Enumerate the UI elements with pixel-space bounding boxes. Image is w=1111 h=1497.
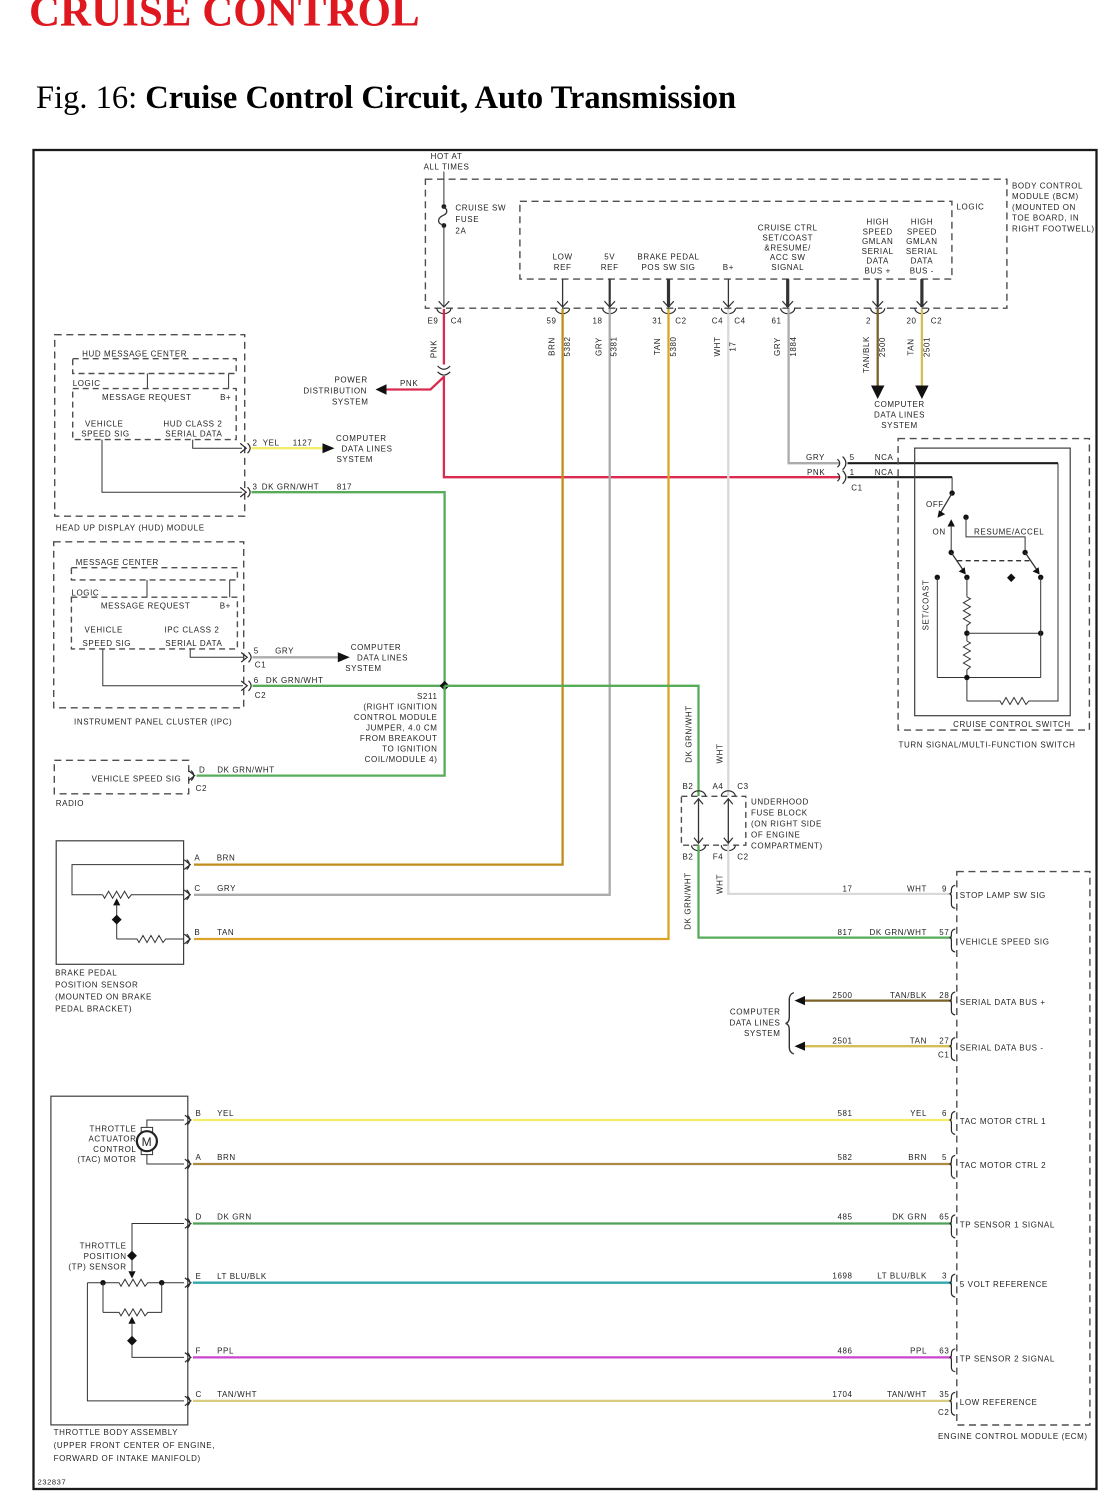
labels B2 F4 C2 [683,853,749,862]
label HOT AT ALL TIMES [424,152,470,172]
label UNDERHOOD FUSE BLOCK note [751,798,823,851]
module RADIO dashed box [54,760,188,794]
svg-text:DISTRIBUTION: DISTRIBUTION [303,387,367,396]
svg-text:35: 35 [939,1390,949,1399]
svg-text:LOGIC: LOGIC [957,203,985,212]
svg-text:9: 9 [942,884,947,893]
svg-text:PPL: PPL [217,1347,234,1356]
wire BRN 582 [193,1163,952,1165]
svg-text:DATA LINES: DATA LINES [342,445,393,454]
svg-text:CRUISE CONTROL: CRUISE CONTROL [29,0,420,36]
wire TAN 5380 vertical [194,309,669,939]
svg-text:TAN/WHT: TAN/WHT [217,1390,257,1399]
label B YEL [196,1109,235,1118]
svg-text:5382: 5382 [563,336,572,356]
svg-text:DATA: DATA [911,257,934,266]
svg-text:FUSE BLOCK: FUSE BLOCK [751,809,808,818]
svg-text:LOW REFERENCE: LOW REFERENCE [960,1398,1038,1407]
HUD message center dashed frame [73,359,237,374]
svg-text:(UPPER FRONT CENTER OF ENGINE,: (UPPER FRONT CENTER OF ENGINE, [54,1441,215,1450]
wire tac motor to pin B [147,1120,184,1127]
svg-text:B+: B+ [220,393,231,402]
svg-text:GRY: GRY [594,337,603,356]
svg-text:3: 3 [253,483,258,492]
svg-text:27: 27 [939,1037,949,1046]
svg-text:232837: 232837 [38,1478,67,1487]
wire middle column upper [966,577,968,597]
svg-text:E9: E9 [428,317,439,326]
svg-text:THROTTLE BODY ASSEMBLY: THROTTLE BODY ASSEMBLY [54,1428,179,1437]
svg-text:C2: C2 [737,853,748,862]
svg-text:HUD MESSAGE CENTER: HUD MESSAGE CENTER [82,349,187,358]
svg-text:C2: C2 [196,784,207,793]
connector ECM pin 28 [950,992,955,1015]
svg-text:BRN: BRN [217,1153,236,1162]
label CRUISE CTRL SET/COAST &RESUME/ACC SW SIGNAL [758,224,818,273]
svg-text:S211: S211 [417,692,438,701]
wire 5V REF pin 18 [609,279,611,307]
node ON pivot [949,550,954,555]
svg-text:JUMPER, 4.0 CM: JUMPER, 4.0 CM [366,724,438,733]
svg-text:COMPUTER: COMPUTER [351,643,402,652]
svg-text:TAN: TAN [910,1037,927,1046]
svg-text:5V: 5V [604,252,615,261]
label BRAKE PEDAL POSITION SENSOR caption [55,969,152,1014]
switch contact ON arrow [948,519,955,526]
label VEHICLE SPEED SIG ipc [83,626,132,648]
svg-text:TO IGNITION: TO IGNITION [382,745,437,754]
resistor tp R1 [87,1279,184,1286]
svg-text:DK GRN/WHT: DK GRN/WHT [869,928,927,937]
svg-text:582: 582 [837,1153,852,1162]
wire serial data bus - pin 20 [920,279,923,307]
svg-text:OFF: OFF [926,500,944,509]
svg-text:BUS +: BUS + [865,267,891,276]
wire TAN/BLK 2500 serial data bus + [805,999,952,1001]
wire pnk feed into switch [951,477,953,491]
svg-text:LT BLU/BLK: LT BLU/BLK [217,1272,267,1281]
svg-text:YEL: YEL [217,1109,234,1118]
svg-text:LOW: LOW [553,252,573,261]
svg-text:DATA LINES: DATA LINES [357,654,408,663]
wire ipc serial data to pin 5 [190,649,243,657]
connector NCA pin 5 [837,457,845,470]
connector bps pin B [184,934,190,944]
svg-text:MESSAGE CENTER: MESSAGE CENTER [76,558,159,567]
label HUD CLASS 2 SERIAL DATA [163,419,222,438]
resistor bps R2 to pin B [117,936,184,943]
connector tb pin A [185,1159,191,1169]
svg-text:POWER: POWER [335,376,368,385]
svg-text:DK GRN/WHT: DK GRN/WHT [262,483,320,492]
labels row tp sensor 1 [837,1212,949,1221]
wire radio vehicle speed sig [197,686,445,776]
svg-text:C: C [196,1390,202,1399]
svg-text:2A: 2A [455,227,466,236]
wire right column [1040,577,1042,677]
wire tac motor to pin A [147,1155,184,1164]
svg-text:&RESUME/: &RESUME/ [764,243,811,252]
svg-text:(MOUNTED ON: (MOUNTED ON [1012,203,1076,212]
svg-text:GMLAN: GMLAN [862,237,893,246]
svg-text:SPEED: SPEED [863,227,893,236]
svg-text:HOT AT: HOT AT [431,152,463,161]
svg-text:LOGIC: LOGIC [73,379,101,388]
svg-text:(TP) SENSOR: (TP) SENSOR [68,1263,126,1272]
svg-text:2: 2 [866,317,871,326]
svg-text:(RIGHT IGNITION: (RIGHT IGNITION [363,703,437,712]
wire bps pin A internal [72,865,184,895]
svg-text:31: 31 [652,317,662,326]
svg-text:ALL TIMES: ALL TIMES [424,163,470,172]
connector ipc pin 5 [241,652,251,662]
connector tb pin B [185,1115,191,1125]
svg-text:C1: C1 [255,660,266,669]
motor TAC circle M [137,1131,157,1151]
labels 5 NCA / 1 NCA C1 [850,453,894,493]
wire TAN/WHT 1704 [193,1400,952,1402]
svg-text:IPC CLASS 2: IPC CLASS 2 [164,626,219,635]
svg-text:2: 2 [253,439,258,448]
svg-text:LT BLU/BLK: LT BLU/BLK [877,1272,927,1281]
svg-text:2501: 2501 [922,337,931,357]
wire set/coast column [936,577,938,677]
svg-text:WHT: WHT [716,743,725,763]
label COMPUTER DATA LINES SYSTEM (ipc) [345,643,408,673]
node OFF contact [949,490,954,495]
svg-text:HEAD UP DISPLAY (HUD) MODULE: HEAD UP DISPLAY (HUD) MODULE [56,524,205,533]
wire DK GRN/WHT from ipc to S211 [253,685,445,687]
wiper2 tp [128,1317,135,1324]
labels row tac motor ctrl 1 [837,1109,947,1118]
wire YEL 1127 [252,447,323,449]
wire DK GRN/WHT below fuse block to ECM 57 [699,845,952,937]
svg-text:DK GRN: DK GRN [892,1212,927,1221]
wire GRY 5381 vertical [194,309,610,895]
svg-text:6: 6 [254,676,259,685]
wire PNK from E9 [443,309,445,365]
svg-text:UNDERHOOD: UNDERHOOD [751,798,809,807]
svg-text:C2: C2 [675,317,686,326]
module TURN SIGNAL dashed box [898,439,1089,730]
svg-text:DATA: DATA [866,257,889,266]
label 2 YEL 1127 [253,439,313,448]
svg-text:SPEED SIG: SPEED SIG [83,639,132,648]
label 3 DK GRN/WHT 817 [253,483,353,492]
labels row tac motor ctrl 2 [837,1153,947,1162]
wire PNK branch to power distribution [385,377,444,390]
svg-text:C2: C2 [938,1408,949,1417]
svg-text:COMPUTER: COMPUTER [730,1008,781,1017]
connector ECM pin 9 [950,885,955,908]
wire resume contact routing [966,517,1025,550]
wire NCA pin5 into switch [848,462,1059,464]
svg-text:GRY: GRY [217,884,236,893]
svg-text:COMPARTMENT): COMPARTMENT) [751,842,823,851]
svg-text:VEHICLE SPEED SIG: VEHICLE SPEED SIG [92,774,182,783]
wire tp pin D internal [132,1224,184,1272]
svg-text:DK GRN/WHT: DK GRN/WHT [266,676,324,685]
svg-text:61: 61 [771,317,781,326]
wire DK GRN 485 [193,1222,952,1224]
label D DK GRN [196,1213,252,1222]
fuse CRUISE SW FUSE 2A [442,204,447,209]
svg-text:FROM BREAKOUT: FROM BREAKOUT [360,734,438,743]
svg-text:VEHICLE SPEED SIG: VEHICLE SPEED SIG [960,937,1050,946]
svg-text:C4: C4 [451,317,462,326]
svg-text:C4: C4 [734,317,745,326]
node middle contact diamond [1007,573,1015,581]
connector ECM pin 63 [950,1349,955,1372]
svg-text:BRN: BRN [547,337,556,356]
BCM LOGIC dashed box [520,201,952,279]
svg-text:TAN: TAN [217,928,234,937]
box CRUISE CONTROL SWITCH [915,448,1070,716]
svg-text:THROTTLE: THROTTLE [89,1124,136,1133]
svg-text:BRAKE PEDAL: BRAKE PEDAL [55,969,117,978]
svg-text:RADIO: RADIO [56,799,84,808]
svg-text:TAC MOTOR CTRL 1: TAC MOTOR CTRL 1 [960,1117,1046,1126]
labels B2 A4 C3 [683,782,749,791]
node tp wiper1 splice [127,1251,137,1261]
label E LT BLU/BLK [196,1272,267,1281]
connector tb pin F [185,1352,191,1362]
node S211 splice [440,681,450,691]
wire bottom junction row [937,670,1040,701]
wire ON contact [950,526,952,551]
svg-text:3: 3 [942,1272,947,1281]
svg-text:CRUISE SW: CRUISE SW [455,204,506,213]
svg-text:5381: 5381 [610,336,619,356]
svg-text:NCA: NCA [875,453,894,462]
svg-text:B: B [194,928,200,937]
svg-text:RESUME/ACCEL: RESUME/ACCEL [974,527,1044,536]
svg-text:CONTROL MODULE: CONTROL MODULE [354,713,438,722]
connector ECM pin 35 [950,1392,955,1415]
label C GRY [194,884,236,893]
svg-text:MESSAGE REQUEST: MESSAGE REQUEST [102,393,191,402]
svg-text:TAN/BLK: TAN/BLK [890,991,927,1000]
fuse block internal wire left [698,799,700,844]
svg-text:VEHICLE: VEHICLE [85,626,123,635]
svg-text:ON: ON [933,527,946,536]
svg-text:SERIAL DATA BUS +: SERIAL DATA BUS + [960,998,1046,1007]
connector ipc pin 6 [241,681,251,691]
node right column top [1038,575,1043,580]
connector bump B2 top [692,791,706,797]
svg-text:C3: C3 [737,782,748,791]
svg-text:PNK: PNK [807,468,825,477]
label HIGH SPEED GMLAN SERIAL DATA BUS + [862,218,894,276]
wire GRY to computer data lines [253,656,338,658]
connector ECM pin 6 [950,1111,955,1134]
label 5 C1 GRY [254,647,294,670]
resistor bps R1 [103,891,184,898]
svg-text:A: A [194,854,200,863]
wire B+ pin C4 [727,279,729,307]
labels row vehicle speed [837,928,949,937]
label B TAN [194,928,234,937]
svg-text:LOGIC: LOGIC [71,589,99,598]
wire to junction [966,625,968,641]
svg-text:SPEED: SPEED [907,227,937,236]
svg-text:B+: B+ [723,263,734,272]
switch arm RESUME [1025,553,1036,570]
node right column mid [1038,631,1043,636]
wiper bps [113,898,120,905]
svg-text:B+: B+ [220,601,231,610]
svg-text:MODULE (BCM): MODULE (BCM) [1012,192,1079,201]
labels row serial data bus - [832,1037,949,1060]
svg-text:M: M [142,1135,153,1149]
resistor R3 horizontal with feedback line [967,463,1058,704]
wiper1 arrowhead [128,1271,135,1278]
connector hud pin 3 [240,487,250,497]
svg-text:BRN: BRN [908,1153,927,1162]
label VEHICLE SPEED SIG hud [81,419,130,438]
svg-text:HIGH: HIGH [911,218,933,227]
svg-text:C: C [194,884,200,893]
labels row low ref [832,1390,949,1417]
connector tb pin C [185,1396,191,1406]
svg-text:SIGNAL: SIGNAL [771,263,804,272]
svg-text:SYSTEM: SYSTEM [345,664,382,673]
connector bump F4 bottom [721,845,735,851]
svg-text:20: 20 [906,317,916,326]
wire PPL 486 [193,1356,952,1358]
svg-text:BUS -: BUS - [910,267,934,276]
node link lines ipc [147,580,230,597]
label THROTTLE BODY ASSEMBLY caption [54,1428,215,1463]
wire TAN 2501 serial data bus - [805,1045,952,1047]
wire WHT 17 vertical to fuse block [727,309,729,796]
pin labels under BCM [428,317,943,326]
svg-text:TAN: TAN [907,338,916,355]
wire DK GRN/WHT S211 to fuse block [445,686,699,796]
wire hud serial data to pin 2 [193,440,242,449]
svg-text:57: 57 [939,928,949,937]
svg-text:18: 18 [592,317,602,326]
label BRAKE PEDAL POS SW SIG [637,252,699,272]
svg-text:581: 581 [837,1109,852,1118]
svg-text:THROTTLE: THROTTLE [80,1242,127,1251]
svg-text:VEHICLE: VEHICLE [85,419,123,428]
svg-text:STOP LAMP SW SIG: STOP LAMP SW SIG [960,891,1046,900]
labels row tp sensor 2 [837,1346,949,1355]
svg-text:17: 17 [729,341,738,351]
svg-text:ACC SW: ACC SW [770,253,806,262]
connector ECM pin 57 [950,929,955,952]
connector ECM pin 27 [950,1038,955,1061]
svg-text:DK GRN/WHT: DK GRN/WHT [217,766,275,775]
svg-text:GMLAN: GMLAN [906,237,937,246]
wire TAN/BLK 2500 stub [877,309,879,388]
connector bump A4 top [721,791,735,797]
svg-text:OF ENGINE: OF ENGINE [751,831,800,840]
svg-text:2500: 2500 [832,991,852,1000]
label 5V REF [601,252,619,272]
label F PPL [196,1347,235,1356]
svg-text:DK GRN: DK GRN [217,1213,252,1222]
wire LOW REF pin 59 [562,279,564,307]
wire WHT below fuse block to ECM 9 [728,845,952,894]
label C TAN/WHT [196,1390,258,1399]
svg-text:485: 485 [837,1212,852,1221]
svg-text:5: 5 [850,453,855,462]
label COMPUTER DATA LINES SYSTEM (right) [729,1008,780,1039]
svg-text:TOE BOARD, IN: TOE BOARD, IN [1012,214,1079,223]
labels row stop lamp [842,884,947,893]
label IPC CLASS 2 SERIAL DATA [164,626,222,648]
svg-text:TURN SIGNAL/MULTI-FUNCTION SWI: TURN SIGNAL/MULTI-FUNCTION SWITCH [899,741,1076,750]
motor TAC bottom tab [141,1149,152,1154]
svg-text:SERIAL DATA: SERIAL DATA [165,639,222,648]
svg-text:FORWARD OF INTAKE MANIFOLD): FORWARD OF INTAKE MANIFOLD) [54,1454,201,1463]
wire PNK continues to junction [444,376,840,477]
svg-text:ENGINE CONTROL MODULE (ECM): ENGINE CONTROL MODULE (ECM) [938,1432,1088,1441]
svg-text:2501: 2501 [832,1037,852,1046]
tp sensor side legs [87,1283,184,1401]
svg-text:5: 5 [942,1153,947,1162]
svg-text:DK GRN/WHT: DK GRN/WHT [685,705,694,763]
svg-text:17: 17 [842,884,852,893]
svg-text:A: A [196,1153,202,1162]
svg-text:D: D [196,1213,202,1222]
svg-text:C1: C1 [938,1051,949,1060]
svg-text:TAN/WHT: TAN/WHT [887,1390,927,1399]
svg-text:B2: B2 [683,853,694,862]
svg-text:TAN: TAN [653,338,662,355]
mechanical link dashed [957,560,1029,562]
svg-text:1698: 1698 [832,1272,852,1281]
svg-text:BRN: BRN [217,854,236,863]
label A BRN tac [196,1153,236,1162]
fuse block internal wire right [727,799,729,844]
inline connector on PNK wire [438,366,451,375]
svg-text:MESSAGE REQUEST: MESSAGE REQUEST [101,601,190,610]
svg-text:GRY: GRY [806,453,825,462]
svg-text:D: D [199,766,205,775]
connector NCA pin 1 [837,471,845,484]
switch arm ON to set/coast [951,553,962,570]
svg-text:SYSTEM: SYSTEM [337,455,374,464]
wire TAN 2501 stub [921,309,923,388]
module THROTTLE BODY ASSEMBLY box [51,1096,188,1425]
svg-text:FUSE: FUSE [455,215,479,224]
connector hud pin 2 [240,443,250,453]
node tp r1 right [159,1280,164,1285]
connector tb pin E [185,1278,191,1288]
wire BRAKE PEDAL POS SW SIG pin 31 [667,279,670,307]
connector bumps at BCM bottom edge [437,308,929,314]
resistor R2 (switch) [963,641,970,670]
HUD logic dashed box [73,389,237,440]
svg-text:SYSTEM: SYSTEM [332,398,369,407]
svg-text:65: 65 [939,1212,949,1221]
label HIGH SPEED GMLAN SERIAL DATA BUS - [906,218,938,276]
svg-text:CRUISE CTRL: CRUISE CTRL [758,224,818,233]
label POWER DISTRIBUTION SYSTEM [303,376,368,407]
connector ECM pin 3 [950,1274,955,1297]
connector radio pin D [189,771,195,781]
svg-text:YEL: YEL [263,439,280,448]
brace computer data lines [786,993,794,1054]
label BODY CONTROL MODULE (BCM) [1012,182,1095,234]
svg-text:BODY CONTROL: BODY CONTROL [1012,182,1083,191]
svg-text:GRY: GRY [275,647,294,656]
svg-text:(TAC) MOTOR: (TAC) MOTOR [77,1155,136,1164]
svg-text:PNK: PNK [430,340,439,358]
